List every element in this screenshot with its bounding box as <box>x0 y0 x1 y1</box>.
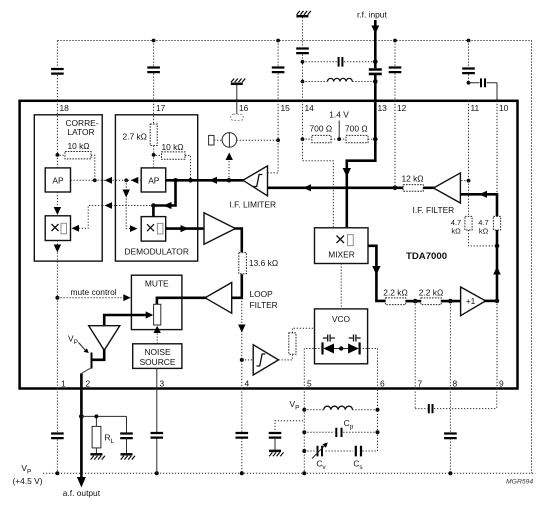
wire pin3 below <box>156 389 158 474</box>
node AP2 output branch <box>124 178 128 182</box>
svg-text:LATOR: LATOR <box>67 127 94 137</box>
wire 10k demod left link <box>156 155 162 157</box>
multiplier X2 box <box>141 217 166 242</box>
resistor R 2.2k right <box>421 298 441 305</box>
svg-text:16: 16 <box>239 103 249 113</box>
node tuning indicator tap <box>227 178 232 183</box>
wire rf line inside to mixer <box>347 101 376 228</box>
node 700 center <box>337 137 341 141</box>
node RL top <box>94 414 98 418</box>
node series cap to rf line <box>373 60 378 65</box>
arrow AP2 branch down <box>123 190 130 198</box>
wire thick branch limiter to X2 <box>153 179 175 217</box>
wire circle to pin15 column <box>237 139 278 141</box>
varactor cap symbol left <box>323 335 335 342</box>
capacitor C-pin17 <box>147 68 160 73</box>
svg-text:NOISE: NOISE <box>144 347 170 357</box>
svg-text:8: 8 <box>453 379 458 389</box>
current source circle tuning indicator <box>222 133 237 148</box>
wire 2.2k mid link <box>406 300 421 303</box>
block VCO box <box>315 309 368 364</box>
wire 700 network links <box>303 138 376 140</box>
node branch corner <box>151 203 156 208</box>
node pin4 rail <box>240 471 244 475</box>
resistor R vco control <box>289 333 296 354</box>
wire AP2 branch down to X2 input <box>126 180 135 228</box>
node thick branch on limiter line <box>173 178 178 183</box>
op-amp AP correlator box <box>45 168 70 192</box>
node line A 10k feedback <box>93 178 97 182</box>
wire pin3 stub <box>156 368 158 388</box>
svg-text:2.7 kΩ: 2.7 kΩ <box>123 132 147 142</box>
varactor diode right <box>348 342 360 354</box>
wire pin8 below <box>449 389 451 474</box>
svg-text:FILTER: FILTER <box>250 300 278 310</box>
svg-text:I.F. FILTER: I.F. FILTER <box>413 205 455 215</box>
wire limiter output to AP2 <box>166 179 244 182</box>
wire RL to ground <box>95 448 97 454</box>
svg-text:17: 17 <box>156 103 166 113</box>
wire mute control dashed <box>57 297 126 299</box>
node pin18 10k tap <box>56 153 60 157</box>
wire line B correlator side <box>74 206 115 229</box>
dashed component pin16 internal <box>231 114 244 120</box>
svg-text:MUTE: MUTE <box>145 278 169 288</box>
node pin1 rail <box>55 471 59 475</box>
wire pin14 inside down to mixer <box>303 101 334 228</box>
node bus-pin11 <box>467 39 471 43</box>
wire into S amp <box>242 359 253 361</box>
svg-text:kΩ: kΩ <box>479 226 489 235</box>
amplifier af triangle <box>89 326 120 351</box>
IC boundary box TDA7000 <box>20 101 518 389</box>
resistor RL <box>92 426 101 448</box>
arrow line B into X1 <box>72 225 80 232</box>
wire 13.6k to loop filter <box>232 274 242 298</box>
op-amp AP demodulator box <box>141 168 166 192</box>
node pin3 rail <box>155 471 159 475</box>
multiplier X1 box <box>45 216 70 241</box>
capacitor C pin3 <box>151 433 164 438</box>
node pin14 tap upper <box>301 60 305 64</box>
ground cap vco <box>269 451 284 456</box>
ground pin16 top <box>231 79 246 84</box>
ground pin14 top <box>296 11 311 16</box>
node varicap center <box>339 346 343 350</box>
capacitor C vco ground <box>269 433 282 438</box>
arrow rf into mixer down <box>343 168 351 177</box>
resistor R 10k correlator <box>65 152 91 159</box>
svg-text:2.2 kΩ: 2.2 kΩ <box>419 287 443 297</box>
capacitor Cp <box>336 428 341 437</box>
svg-text:13: 13 <box>378 103 388 113</box>
node pin15 indicator <box>276 138 280 142</box>
svg-text:(+4.5 V): (+4.5 V) <box>13 476 43 486</box>
capacitor C-pin11 <box>462 69 475 74</box>
node pin12 IF line <box>393 186 398 191</box>
wire pin9 below <box>496 389 498 409</box>
wire diode row to pins 5 6 <box>304 348 377 350</box>
multiplier X1 glyph <box>52 224 59 231</box>
block NOISE SOURCE box <box>133 344 182 369</box>
svg-text:DEMODULATOR: DEMODULATOR <box>125 246 189 256</box>
svg-text:MIXER: MIXER <box>328 249 355 259</box>
resistor R 700 left <box>312 135 331 142</box>
wire cap pin2 to ground <box>126 438 128 453</box>
wire S amp to 1.8k resistor <box>279 354 293 360</box>
node inductor to rf line <box>373 79 378 84</box>
arrow X2 output right <box>181 225 189 232</box>
resistor R 12k <box>403 185 423 192</box>
wire mixer output to 2.2k row <box>368 246 385 301</box>
multiplier X1 bracket <box>61 223 67 234</box>
wire tank top link <box>304 409 377 411</box>
svg-text:2.2 kΩ: 2.2 kΩ <box>383 287 407 297</box>
svg-text:VCO: VCO <box>332 314 351 324</box>
wire diode row <box>334 348 348 350</box>
capacitor C pin4 <box>236 433 249 438</box>
arrow af output down <box>77 477 86 488</box>
capacitor C pin2 <box>120 434 133 439</box>
wire pin11 column to 4.7k <box>468 181 470 217</box>
wire demod amp to 13.6k <box>234 229 242 253</box>
capacitor C-pin12 <box>389 68 402 73</box>
node pin6 cp <box>376 430 380 434</box>
wire pin12 inside <box>394 101 396 188</box>
wire 1.4V tap <box>338 121 340 140</box>
svg-text:18: 18 <box>60 103 70 113</box>
wire pin7 inside <box>414 301 416 388</box>
wire line A demod side with AP2 output branch <box>115 179 141 181</box>
wire pin17 column top <box>153 41 155 101</box>
wire 4.7k left bottom link <box>469 230 498 246</box>
arrow pin4 down <box>238 325 245 333</box>
svg-text:4: 4 <box>245 379 250 389</box>
wire meter to circle <box>214 139 222 141</box>
capacitor Cs <box>356 446 361 457</box>
node 700 left pin14 <box>301 137 305 141</box>
wire indicator branch up <box>228 158 230 180</box>
node bus-pin17 <box>152 39 156 43</box>
svg-text:2: 2 <box>86 379 91 389</box>
wire VP supply rail <box>43 472 535 474</box>
node 4.7k join feedback <box>495 244 500 249</box>
wire pin6 stub inside <box>377 349 379 389</box>
multiplier X2 bracket <box>157 223 163 234</box>
wire rf input line <box>374 20 377 101</box>
wire pin4 below <box>241 389 243 474</box>
svg-text:TDA7000: TDA7000 <box>406 251 447 262</box>
wire cap vco to ground <box>274 438 276 451</box>
wire mixer to vco <box>340 264 342 309</box>
node +1 output <box>495 299 500 304</box>
op-amp IF limiter triangle <box>243 166 268 196</box>
node loop filter S amp tap <box>240 358 244 362</box>
svg-text:AP: AP <box>52 176 64 186</box>
wire 2.2k to +1 amp <box>441 300 460 303</box>
svg-text:+1: +1 <box>466 296 476 306</box>
block MIXER box <box>315 228 369 264</box>
ground RL <box>90 454 105 459</box>
wire pin7 below <box>415 389 497 409</box>
node pin6 vp <box>376 408 380 412</box>
arrow mute control right <box>123 294 131 301</box>
arrow feedback up <box>493 267 501 275</box>
wire coupling cap link pin14-pin13 <box>303 61 376 63</box>
wire resistor to vco varicap center <box>292 328 341 348</box>
capacitor C-series-11-10 <box>481 78 485 87</box>
wire af amp input from pot wiper <box>104 315 149 326</box>
wire 12k to IF filter tip <box>423 187 434 190</box>
node 700 right rf line <box>373 137 378 142</box>
node pin5 vp <box>302 408 306 412</box>
wire pin5 stub inside <box>303 349 305 389</box>
meter box tuning indicator <box>209 135 214 145</box>
wire X1 output down to pin1 <box>56 241 58 389</box>
varactor diode left <box>323 342 335 354</box>
node bus-pin12 <box>393 39 397 43</box>
svg-text:I.F. LIMITER: I.F. LIMITER <box>230 199 277 209</box>
wire pin4 column inside <box>241 298 243 389</box>
wire pin5 below column <box>303 389 305 474</box>
wire pin12 column top <box>394 41 396 101</box>
potentiometer mute resistor <box>154 304 161 325</box>
svg-text:10 kΩ: 10 kΩ <box>161 142 183 152</box>
transistor Q1 base bar <box>91 353 93 369</box>
node pin5 cp <box>302 430 306 434</box>
wire line B demod side <box>115 205 153 207</box>
wire top decoupling bus <box>57 41 531 474</box>
svg-text:6: 6 <box>380 379 385 389</box>
wire pin10 inside <box>496 101 498 195</box>
svg-text:5: 5 <box>307 379 312 389</box>
svg-text:7: 7 <box>418 379 423 389</box>
wire pin18 inside <box>56 101 58 168</box>
node pin17 10k tap <box>152 153 156 157</box>
wire pin11 to IF filter upper input <box>460 101 468 181</box>
transistor Q1 emitter <box>81 368 91 374</box>
arrow into X2 left <box>130 225 138 232</box>
svg-text:mute control: mute control <box>71 287 117 297</box>
svg-text:10: 10 <box>499 103 509 113</box>
wire loop filter output to mute pot <box>157 298 207 305</box>
svg-text:14: 14 <box>305 103 315 113</box>
wire pin11 column top <box>468 41 470 83</box>
arrow AP1 to X1 down <box>54 207 61 215</box>
wire pin2 branch to RL and cap <box>81 416 126 433</box>
amplifier +1 triangle <box>461 287 486 316</box>
wire pin15 inside <box>268 101 279 173</box>
wire line A correlator side <box>71 179 142 181</box>
arrow VP callout <box>84 348 89 353</box>
resistor R 4.7k right <box>493 216 500 230</box>
resistor R 700 right <box>346 135 368 142</box>
node bus-pin15 <box>276 39 280 43</box>
svg-text:AP: AP <box>148 176 160 186</box>
ground cap pin2 <box>121 454 136 459</box>
wire 10k demod right to thick line <box>185 156 191 181</box>
arrow wiper right <box>146 311 154 318</box>
amplifier loop filter triangle <box>205 283 232 314</box>
arrow branch into X2 corner <box>164 202 172 209</box>
capacitor C-pin18 <box>51 69 64 74</box>
wire pin18 column top <box>56 41 58 101</box>
wire pin1 below <box>56 389 58 474</box>
node pin2 branch <box>79 414 84 419</box>
resistor R 13.6k <box>239 253 247 274</box>
arrow feedback into filter left <box>479 191 487 198</box>
capacitor C-pin14 <box>296 49 309 54</box>
arrow rf input down <box>371 26 379 35</box>
svg-text:1.4 V: 1.4 V <box>329 109 349 119</box>
svg-text:10 kΩ: 10 kΩ <box>67 141 89 151</box>
wire inductor link pin14-pin13 <box>303 81 376 83</box>
svg-text:3: 3 <box>160 379 165 389</box>
node pin8 rail <box>448 471 452 475</box>
node pin11 filter input <box>467 179 471 183</box>
multiplier mixer glyph <box>337 236 345 244</box>
arrow mixer output down <box>372 266 380 275</box>
wire Cp link <box>304 431 377 433</box>
capacitor C series 7-8 <box>429 404 433 413</box>
capacitor C pin8 <box>444 434 457 439</box>
svg-text:15: 15 <box>281 103 291 113</box>
svg-text:13.6 kΩ: 13.6 kΩ <box>249 258 278 268</box>
node pin5 rail <box>302 471 306 475</box>
inductor L-rf <box>328 78 353 81</box>
amplifier demod output triangle <box>204 213 235 245</box>
wire 10k right to line A <box>60 155 95 180</box>
wire AP1 to X1 <box>56 192 58 209</box>
wire pin2 af output line <box>80 374 83 482</box>
resistor R 2.2k left <box>385 298 405 305</box>
wire pin8 inside <box>449 301 451 388</box>
capacitor C pin1 <box>51 434 64 439</box>
arrow IF line left <box>303 184 311 191</box>
svg-text:LOOP: LOOP <box>250 289 274 299</box>
node pin11 cap bottom <box>467 81 471 85</box>
svg-text:a.f. output: a.f. output <box>63 488 101 498</box>
arrow Cv trimmer <box>312 442 328 458</box>
svg-text:SOURCE: SOURCE <box>140 357 176 367</box>
svg-text:MGR594: MGR594 <box>506 479 533 486</box>
block MUTE box <box>131 275 182 329</box>
current source vertical bar <box>228 133 230 148</box>
glyph S curve noise amp <box>257 354 266 366</box>
arrow indicator up <box>226 153 233 161</box>
resistor R 10k demodulator <box>162 152 186 159</box>
arrow line B into correlator <box>105 202 113 209</box>
wire cap vco ground link <box>275 421 304 433</box>
capacitor Cv variable <box>318 446 323 457</box>
arrow line A at AP2 <box>131 177 139 184</box>
glyph limiter curve <box>254 175 263 187</box>
arrow limiter output left <box>209 177 217 184</box>
node pin7 tap <box>413 299 418 304</box>
multiplier X2 glyph <box>147 224 154 231</box>
resistor R 4.7k left <box>465 216 472 230</box>
node pin14 tap lower <box>301 80 305 84</box>
wire pin17 inside <box>153 101 155 168</box>
wire noise source to pot <box>156 330 158 344</box>
wire pin9 inside <box>496 301 498 389</box>
wire af amp to transistor <box>92 349 104 360</box>
arrow line A into correlator <box>105 177 113 184</box>
node 10k to limiter line <box>188 178 193 183</box>
wire +1 output corner <box>484 300 497 303</box>
svg-text:9: 9 <box>499 379 504 389</box>
node mute control junction <box>55 296 59 300</box>
block CORRELATOR box <box>34 115 102 261</box>
wire Cv Cs link <box>304 389 377 452</box>
varactor cap symbol right <box>349 335 361 342</box>
svg-text:11: 11 <box>471 103 480 113</box>
wire feedback vertical <box>496 230 499 301</box>
wire pin14 column top <box>302 17 304 101</box>
svg-text:kΩ: kΩ <box>451 226 461 235</box>
wire pin15 column top <box>277 41 279 101</box>
multiplier mixer bracket <box>348 235 354 246</box>
node pin5 cv <box>302 449 306 453</box>
wire X2 thick output <box>166 227 204 230</box>
wire pin16 to ground <box>236 85 238 101</box>
arrow noise up <box>154 326 161 333</box>
svg-text:12 kΩ: 12 kΩ <box>401 173 423 183</box>
svg-text:1: 1 <box>61 379 66 389</box>
capacitor C-series-14-13 <box>339 57 343 67</box>
wire pin16 stub <box>236 101 238 114</box>
svg-text:r.f. input: r.f. input <box>357 10 387 20</box>
op-amp IF filter triangle <box>434 173 461 203</box>
svg-text:700 Ω: 700 Ω <box>310 123 333 133</box>
op-amp noise detector triangle <box>253 345 278 375</box>
arrow X1 output down <box>54 245 61 253</box>
node pin8 tap <box>448 299 453 304</box>
svg-text:700 Ω: 700 Ω <box>345 123 368 133</box>
inductor L tank <box>324 406 353 410</box>
capacitor C-series-rf <box>369 70 382 74</box>
svg-text:12: 12 <box>397 103 407 113</box>
wire series cap link pin11-pin10 <box>469 83 498 101</box>
block DEMODULATOR box <box>115 115 197 261</box>
capacitor C-pin15 <box>272 68 285 73</box>
resistor R 2.7k <box>150 124 157 146</box>
wire IF line filter to limiter <box>268 187 404 190</box>
wire VP callout <box>79 343 86 351</box>
wire IF filter lower input from feedback <box>460 194 497 216</box>
